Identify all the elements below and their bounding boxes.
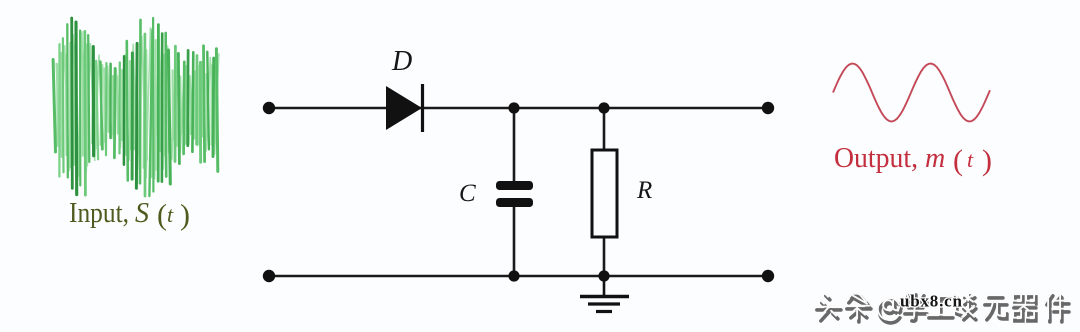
bottom wire — [269, 275, 768, 278]
node bottom at R — [598, 270, 609, 281]
terminal node top-right — [762, 102, 774, 114]
node bottom at C — [508, 270, 519, 281]
svg-text:(: ( — [953, 144, 963, 177]
svg-text:Input,: Input, — [69, 198, 129, 229]
terminal node bottom-left — [263, 270, 275, 282]
svg-text:C: C — [459, 180, 476, 207]
watermark char @ — [878, 298, 901, 323]
svg-text:R: R — [636, 177, 652, 204]
svg-text:t: t — [167, 202, 174, 227]
terminal node bottom-right — [762, 270, 774, 282]
terminal node top-left — [263, 102, 275, 114]
node top at C — [508, 102, 519, 113]
watermark char 件 — [1045, 293, 1069, 322]
input AM waveform S(t) — [53, 18, 219, 196]
output sine wave — [833, 64, 990, 122]
watermark char 元 — [983, 295, 1007, 320]
label Output, m(t) — [834, 143, 992, 177]
watermark char 条 — [845, 292, 871, 322]
svg-text:t: t — [967, 147, 974, 172]
capacitor C — [496, 108, 533, 276]
svg-text:): ) — [180, 199, 190, 232]
svg-text:m: m — [925, 143, 945, 174]
svg-text:ubx8.cn: ubx8.cn — [900, 292, 963, 311]
watermark char 学 — [903, 292, 927, 321]
svg-text:S: S — [135, 198, 149, 229]
svg-text:(: ( — [157, 199, 167, 232]
diode D — [386, 84, 423, 132]
ground — [580, 276, 629, 312]
watermark char 工 — [927, 296, 953, 318]
resistor R — [592, 108, 617, 276]
watermark char 谈 — [954, 293, 976, 320]
svg-text:Output,: Output, — [834, 143, 918, 174]
node top at R — [598, 102, 609, 113]
watermark char 头 — [815, 293, 841, 321]
label Input, S(t) — [69, 198, 190, 232]
watermark char 器 — [1012, 294, 1036, 321]
svg-text:D: D — [391, 46, 412, 77]
svg-text:): ) — [982, 144, 992, 177]
top wire — [269, 107, 768, 110]
